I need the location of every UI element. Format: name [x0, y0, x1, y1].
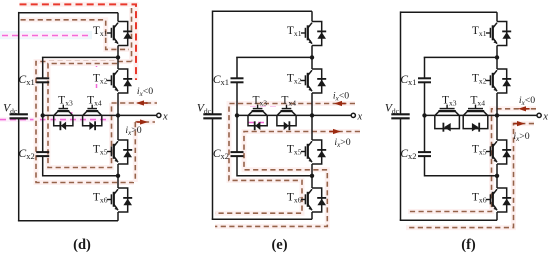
- node a d: [116, 55, 120, 59]
- terminal x f: [497, 111, 548, 122]
- svg-text:Cx1: Cx1: [213, 74, 229, 87]
- label (f): [461, 237, 476, 253]
- svg-text:Tx5: Tx5: [287, 144, 302, 157]
- dc source Vdc f: [385, 103, 410, 119]
- wire top rail e: [213, 10, 313, 12]
- transistor Tx2 d: [93, 57, 132, 115]
- wire node1 to inner d: [42, 56, 118, 58]
- svg-text:Tx4: Tx4: [87, 95, 102, 108]
- conduction path d1 right: [129, 8, 134, 62]
- transistor Tx3 f: [435, 95, 460, 132]
- node mid d: [41, 113, 45, 117]
- annotation blue band d: [0, 31, 92, 39]
- label ix neg d: [137, 86, 153, 98]
- conduction path f2: [406, 124, 534, 228]
- transistor Tx5 e: [287, 115, 326, 175]
- wire middle branch f: [425, 114, 498, 116]
- wire left dc bus lower f: [400, 118, 402, 220]
- wire bottom rail e: [212, 218, 312, 220]
- label ix pos f: [513, 131, 529, 143]
- wire top rail d: [19, 12, 118, 14]
- label ix neg f: [519, 95, 535, 107]
- label ix neg e: [333, 91, 349, 103]
- current arrow ix pos f: [513, 121, 525, 126]
- transistor Tx4 f: [463, 95, 488, 132]
- svg-text:Cx2: Cx2: [19, 148, 35, 161]
- node mid e: [235, 113, 239, 117]
- transistor Tx3 e: [248, 95, 267, 131]
- svg-text:Vdc: Vdc: [3, 103, 18, 116]
- capacitor Cx1 e: [213, 74, 244, 87]
- node output f: [495, 113, 499, 117]
- svg-text:Tx2: Tx2: [287, 73, 302, 86]
- transistor Tx1 f: [472, 12, 511, 57]
- svg-text:ix>0: ix>0: [125, 125, 141, 137]
- svg-text:x: x: [357, 111, 363, 122]
- wire inner mid f: [424, 82, 426, 152]
- wire left dc bus upper e: [212, 11, 214, 115]
- wire inner upper e: [236, 57, 238, 78]
- label ix pos d: [125, 125, 141, 137]
- wire middle branch d: [43, 114, 118, 116]
- svg-text:(d): (d): [73, 237, 91, 253]
- svg-text:Cx2: Cx2: [400, 148, 416, 161]
- wire middle branch e: [237, 114, 312, 116]
- node output e: [310, 113, 314, 117]
- svg-text:x: x: [542, 111, 548, 122]
- wire left dc bus upper d: [18, 12, 20, 114]
- svg-text:(e): (e): [271, 237, 287, 253]
- node a f: [495, 55, 499, 59]
- svg-text:Cx1: Cx1: [19, 74, 35, 87]
- svg-text:Tx4: Tx4: [470, 95, 485, 108]
- label (d): [73, 237, 91, 253]
- transistor Tx6 d: [93, 176, 132, 221]
- transistor Tx4 d: [83, 95, 102, 131]
- transistor Tx1 d: [93, 13, 132, 58]
- svg-text:Tx6: Tx6: [287, 192, 302, 205]
- capacitor Cx1 f: [400, 74, 431, 87]
- node b f: [495, 174, 499, 178]
- transistor Tx1 e: [287, 11, 326, 57]
- conduction path e2: [215, 132, 360, 227]
- conduction path d1: [21, 20, 132, 50]
- terminal x d: [118, 111, 168, 122]
- terminal x e: [312, 111, 363, 122]
- svg-text:ix<0: ix<0: [519, 95, 535, 107]
- label (e): [271, 237, 287, 253]
- svg-text:Tx3: Tx3: [58, 95, 73, 108]
- svg-text:Cx1: Cx1: [400, 74, 416, 87]
- current arrow ix neg f: [518, 106, 530, 111]
- capacitor Cx2 e: [213, 148, 244, 161]
- dc source Vdc e: [197, 103, 222, 119]
- wire node1 to inner f: [424, 56, 497, 58]
- svg-text:Vdc: Vdc: [385, 103, 400, 116]
- transistor Tx2 e: [287, 57, 326, 115]
- wire bottom rail d: [18, 220, 118, 222]
- wire inner upper f: [424, 57, 426, 78]
- svg-text:Tx4: Tx4: [281, 95, 296, 108]
- node b e: [310, 174, 314, 178]
- svg-text:Tx1: Tx1: [287, 25, 302, 38]
- node output d: [116, 113, 120, 117]
- annotation magenta dashed lower d: [0, 117, 113, 122]
- red commutation path d: [20, 4, 137, 80]
- wire left dc bus lower d: [18, 118, 20, 221]
- node b d: [116, 174, 120, 178]
- node a e: [310, 55, 314, 59]
- wire left dc bus lower e: [212, 118, 214, 219]
- dc source Vdc d: [3, 103, 28, 119]
- svg-text:ix<0: ix<0: [333, 91, 349, 103]
- annotation magenta dashes e: [248, 106, 276, 123]
- annotation magenta marks d: [72, 63, 97, 120]
- transistor Tx4 e: [277, 95, 296, 131]
- svg-text:Vdc: Vdc: [197, 103, 212, 116]
- transistor Tx6 f: [472, 176, 511, 221]
- svg-text:Tx5: Tx5: [472, 144, 487, 157]
- current path ix neg d: [112, 100, 158, 105]
- svg-text:ix>0: ix>0: [334, 137, 350, 149]
- svg-text:Tx5: Tx5: [93, 144, 108, 157]
- current path ix pos d: [135, 119, 155, 182]
- wire inner lower e: [237, 156, 312, 176]
- wire node1 to inner e: [236, 56, 312, 58]
- wire inner lower d: [43, 156, 118, 176]
- transistor Tx2 f: [472, 57, 511, 115]
- transistor Tx3 d: [54, 95, 73, 131]
- transistor Tx6 e: [287, 176, 326, 220]
- svg-text:Tx6: Tx6: [93, 192, 108, 205]
- svg-text:Tx2: Tx2: [93, 73, 108, 86]
- wire bottom rail f: [400, 219, 497, 221]
- svg-text:ix>0: ix>0: [513, 131, 529, 143]
- capacitor Cx2 f: [400, 148, 431, 161]
- svg-text:Tx1: Tx1: [472, 25, 487, 38]
- wire inner upper d: [42, 57, 44, 78]
- svg-text:(f): (f): [461, 237, 476, 253]
- annotation magenta dashed upper d: [2, 33, 88, 38]
- capacitor Cx1 d: [19, 74, 50, 87]
- conduction path d3: [48, 64, 117, 168]
- transistor Tx5 d: [93, 115, 132, 175]
- wire left dc bus upper f: [400, 11, 402, 114]
- current arrow ix pos e: [329, 129, 341, 134]
- node mid f: [422, 113, 426, 117]
- svg-text:Tx3: Tx3: [252, 95, 267, 108]
- current arrow ix neg e: [334, 101, 346, 106]
- wire inner mid d: [42, 82, 44, 152]
- wire inner mid e: [236, 82, 238, 152]
- conduction path e1: [215, 104, 355, 214]
- wire inner lower f: [425, 156, 498, 176]
- transistor Tx5 f: [472, 115, 511, 175]
- svg-text:Tx3: Tx3: [442, 95, 457, 108]
- label ix pos e: [334, 137, 350, 149]
- svg-text:ix<0: ix<0: [137, 86, 153, 98]
- conduction path f1: [408, 109, 536, 212]
- svg-text:Tx2: Tx2: [472, 73, 487, 86]
- wire top rail f: [401, 11, 498, 13]
- conduction path d2: [36, 62, 134, 183]
- svg-text:Tx6: Tx6: [472, 192, 487, 205]
- svg-text:x: x: [162, 111, 168, 122]
- capacitor Cx2 d: [19, 148, 50, 161]
